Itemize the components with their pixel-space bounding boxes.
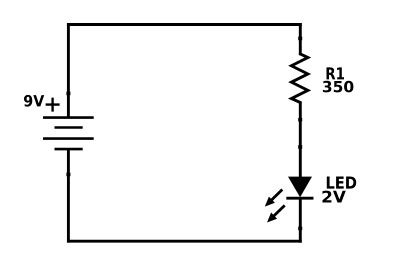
terminal dot LED anode pin [298,145,302,149]
label LED designator [327,177,356,189]
battery V1 short plate 2 [55,126,83,129]
wire left upper (top corner to battery + plate) [67,23,70,117]
terminal dot battery positive pin [66,92,70,96]
wire left lower (battery - plate to bottom corner) [67,149,70,243]
wire right middle (resistor R1 to LED anode) [299,103,302,178]
LED anode triangle [288,177,312,198]
terminal dot battery negative pin [66,173,70,177]
wire right lower (LED cathode to bottom corner) [299,198,302,243]
LED light-emission arrow lower [267,205,285,222]
terminal dot resistor top pin [298,37,302,41]
label 350 resistance value [323,81,354,93]
label 9V battery voltage [24,95,44,107]
wire bottom (return wire) [67,240,302,243]
resistor R1 zigzag body [291,53,308,103]
LED light-emission arrow upper [265,190,283,207]
wire top (battery + to resistor) [67,23,302,26]
label 2V forward voltage [323,191,346,203]
battery V1 long plate 3 [43,137,94,140]
terminal dot LED cathode pin [298,227,302,231]
battery plus polarity mark [46,98,60,112]
battery V1 negative short plate [55,148,83,151]
label R1 reference [327,67,345,79]
LED cathode bar [286,197,313,200]
wire right upper (top corner to resistor R1) [299,23,302,55]
battery V1 positive long plate [43,116,94,119]
terminal dot resistor bottom pin [298,118,302,122]
